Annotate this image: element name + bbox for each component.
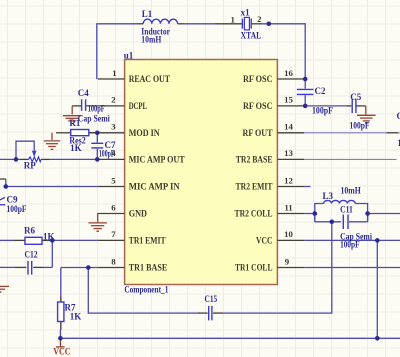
svg-text:100pF: 100pF <box>7 204 27 214</box>
svg-text:TR2 BASE: TR2 BASE <box>236 154 273 164</box>
svg-text:TR1 BASE: TR1 BASE <box>129 263 168 273</box>
svg-text:C4: C4 <box>78 88 89 98</box>
svg-text:11: 11 <box>284 202 292 212</box>
svg-text:RF OUT: RF OUT <box>243 128 273 138</box>
svg-text:RF OSC: RF OSC <box>243 74 273 84</box>
svg-text:R6: R6 <box>24 226 35 236</box>
svg-text:TR1 COLL: TR1 COLL <box>235 263 273 273</box>
svg-text:2: 2 <box>111 95 116 105</box>
svg-text:13: 13 <box>284 148 293 158</box>
svg-text:1: 1 <box>112 68 116 78</box>
svg-text:MOD IN: MOD IN <box>129 128 160 138</box>
svg-text:x1: x1 <box>241 8 251 18</box>
svg-text:100pF: 100pF <box>88 104 105 114</box>
svg-text:u1: u1 <box>124 50 134 60</box>
svg-text:6: 6 <box>111 202 116 212</box>
svg-text:1K: 1K <box>70 312 82 322</box>
svg-text:L3: L3 <box>323 191 334 201</box>
svg-text:C2: C2 <box>315 86 326 96</box>
svg-text:VCC: VCC <box>256 235 273 245</box>
svg-text:RP: RP <box>24 161 36 171</box>
svg-text:12: 12 <box>284 175 293 185</box>
svg-text:1: 1 <box>230 15 234 25</box>
svg-text:2: 2 <box>257 14 262 24</box>
svg-text:REAC OUT: REAC OUT <box>129 74 170 84</box>
svg-text:C: C <box>397 111 400 121</box>
svg-text:GND: GND <box>129 209 148 219</box>
svg-text:1K: 1K <box>43 232 55 242</box>
svg-text:10mH: 10mH <box>341 186 361 196</box>
svg-text:8: 8 <box>111 256 116 266</box>
svg-text:100pF: 100pF <box>340 240 360 250</box>
svg-text:Cap Semi: Cap Semi <box>78 113 110 123</box>
svg-text:Component_1: Component_1 <box>124 285 168 295</box>
svg-text:C12: C12 <box>25 249 39 259</box>
svg-text:C9: C9 <box>7 194 18 204</box>
svg-text:TR1 EMIT: TR1 EMIT <box>129 235 166 245</box>
svg-text:MIC AMP OUT: MIC AMP OUT <box>129 154 185 164</box>
svg-text:14: 14 <box>284 122 293 132</box>
svg-text:DCPL: DCPL <box>129 101 147 111</box>
svg-text:TR2 EMIT: TR2 EMIT <box>236 182 273 192</box>
svg-text:R1: R1 <box>69 118 80 128</box>
svg-text:7: 7 <box>111 229 116 239</box>
svg-text:5: 5 <box>111 175 116 185</box>
svg-text:XTAL: XTAL <box>241 30 262 40</box>
svg-text:C11: C11 <box>340 205 353 215</box>
svg-text:1K: 1K <box>70 143 82 153</box>
svg-text:3: 3 <box>111 122 116 132</box>
svg-text:L1: L1 <box>142 9 153 19</box>
svg-text:C5: C5 <box>350 92 361 102</box>
svg-text:100pF: 100pF <box>312 106 333 116</box>
svg-text:16: 16 <box>284 68 293 78</box>
svg-text:C15: C15 <box>205 294 218 304</box>
svg-text:10: 10 <box>284 229 293 239</box>
svg-text:100pF: 100pF <box>99 149 115 159</box>
svg-text:10mH: 10mH <box>141 34 161 44</box>
svg-text:VCC: VCC <box>53 348 71 357</box>
svg-text:RF OSC: RF OSC <box>243 101 273 111</box>
svg-text:100pF: 100pF <box>350 121 370 131</box>
svg-text:MIC AMP IN: MIC AMP IN <box>129 182 180 192</box>
svg-text:TR2 COLL: TR2 COLL <box>235 209 273 219</box>
svg-text:15: 15 <box>284 95 293 105</box>
svg-text:9: 9 <box>285 256 290 266</box>
